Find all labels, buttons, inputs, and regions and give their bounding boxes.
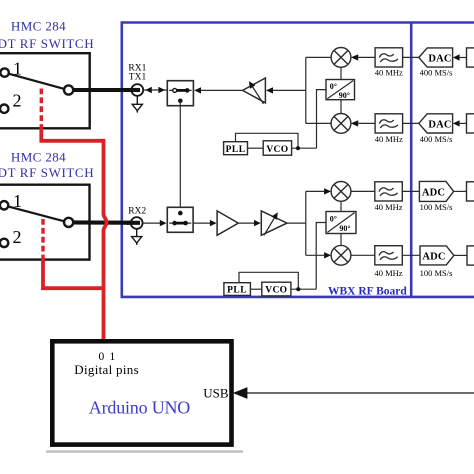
DAC 2 [419,114,453,133]
phase splitter 0/90 (TX) [326,80,355,100]
arrowhead filter1 to mixer M1 [351,54,358,60]
wire: combiner to TX amp [273,89,306,91]
wire: amp A1 to amp A2 [238,222,254,224]
amplifier A1 (RX) [217,211,238,235]
svg-text:ADC: ADC [422,188,445,199]
wire: LO into RX phase splitter [316,223,326,290]
arrowhead into amp A2 [254,220,261,226]
phase splitter 0/90 (RX) [326,212,356,234]
host interface box (row4, clipped) [467,246,474,265]
shadow under Arduino board [46,450,243,452]
wire: TX amp to TR switch [199,89,244,91]
wire: RX phase splitter to mixer M4 [340,234,342,246]
node: VCO output junction (RX) [296,287,300,291]
arrowhead into mixer M3 [324,188,331,194]
Arduino UNO board [52,341,231,444]
VCO U6 (RX) [262,282,291,296]
svg-text:1: 1 [13,59,22,79]
svg-text:40 MHz: 40 MHz [374,268,402,278]
wire: mixer M3 to filter F3 [351,190,375,192]
svg-text:0°: 0° [330,215,337,224]
arrowhead into DAC1 [453,54,460,60]
svg-text:40 MHz: 40 MHz [375,68,403,78]
svg-text:Arduino UNO: Arduino UNO [89,398,190,418]
mixer M4 (RX Q) [331,245,351,265]
svg-text:1: 1 [13,191,22,211]
svg-text:WBX RF Board: WBX RF Board [328,286,407,298]
wire: PLL to VCO (TX) [248,147,264,149]
ground (RX2) [132,229,142,245]
filter F4 (40 MHz LPF) [375,246,403,265]
svg-text:VCO: VCO [265,286,287,296]
TX amplifier (variable gain, points left) [243,78,266,104]
wire: ADC2 to host [454,254,467,256]
host interface box (row1, clipped) [467,48,474,67]
svg-text:DAC: DAC [428,120,451,131]
arrowhead into TX amp from combiner [266,87,273,93]
arrowhead into USB port [233,387,248,399]
ADC 2 [420,246,454,265]
amplifier A2 (RX, variable gain) [261,211,287,235]
arrowhead into amp A1 [210,220,217,226]
node: VCO output junction (TX) [296,146,300,150]
arrowhead toward TR switch (right) [158,87,165,94]
PLL U3 (TX) [224,142,248,155]
arrowhead into mixer M4 [324,252,331,258]
svg-text:SPDT RF SWITCH: SPDT RF SWITCH [0,36,94,51]
ground (RX1/TX1) [132,96,142,113]
wire: PLL to VCO (RX) [250,288,261,290]
arrowhead into RX switch [160,220,167,226]
mixer M2 (TX Q) [331,114,351,134]
switch U1 box (HMC 284 #1) [0,53,90,128]
port RX2 connector [126,217,143,229]
switch U1 arm and contacts [0,68,73,113]
arrowhead into TR switch [194,87,201,93]
wire: F1 to DAC1 [403,56,419,58]
arrowhead filter2 to mixer M2 [351,120,358,126]
svg-text:ADC: ADC [422,252,445,263]
arrowhead toward port (left) [145,87,152,94]
wire: VCO feedback to PLL (RX) [239,272,298,289]
wire: VCO out to LO (RX) [291,288,316,290]
mixer M3 (RX I) [331,182,351,202]
svg-text:400 MS/s: 400 MS/s [420,134,453,144]
wire: mixer M1 to phase splitter [340,67,342,79]
svg-text:90°: 90° [339,224,350,233]
wire: mixer M4 to filter F4 [351,254,375,256]
wire: VCO feedback to PLL (TX) [236,133,299,148]
wire: LO into TX phase splitter [317,90,327,149]
svg-text:VCO: VCO [266,145,288,155]
host interface box (row3, clipped) [467,182,474,201]
wire: ADC1 to host [454,190,467,192]
svg-text:Digital pins: Digital pins [74,362,139,377]
ADC 1 [419,181,453,201]
wire: VCO out to LO (TX) [292,147,317,149]
control wire (red) from U2 pin, dashed inside box [41,219,44,260]
wire: F3 to ADC1 [402,190,419,192]
control wire (red) U1 to Arduino, with hop over RX2 wire [41,127,106,342]
filter F2 (40 MHz LPF) [375,114,403,133]
DAC 1 [419,48,453,67]
control wire (red) U2 to Arduino join [43,258,104,288]
PLL U5 (RX) [224,283,251,296]
wire: TR switch to RX2 switch (vertical link) [179,101,181,213]
wire: RX2 port to RX switch [143,222,161,224]
TR switch box (TX/RX select) [167,81,193,106]
svg-text:SPDT RF SWITCH: SPDT RF SWITCH [0,165,94,180]
VCO U4 (TX) [263,141,291,155]
svg-text:90°: 90° [339,91,350,100]
svg-text:PLL: PLL [227,286,247,296]
svg-text:2: 2 [13,227,22,247]
svg-text:2: 2 [13,91,22,111]
control wire (red) from U1 pin, dashed inside box [40,89,43,129]
filter F1 (40 MHz LPF) [375,48,403,67]
switch U2 box (HMC 284 #2) [0,185,90,260]
TX combiner node [306,57,331,123]
port RX1/TX1 connector [126,84,143,96]
svg-text:TX1: TX1 [129,73,147,83]
svg-text:40 MHz: 40 MHz [375,134,403,144]
svg-text:PLL: PLL [226,145,246,155]
filter F3 (40 MHz LPF) [375,182,403,201]
arrowhead into DAC2 [453,120,460,126]
wire: phase splitter to mixer M2 [340,100,342,114]
svg-text:HMC 284: HMC 284 [11,19,66,34]
wire: U2 common to RX2 port [69,220,140,225]
switch U2 arm and contacts [0,201,73,247]
svg-text:40 MHz: 40 MHz [374,202,402,212]
mixer M1 (TX I) [331,48,351,68]
wire: RX switch to amp A1 [193,222,211,224]
wire: F4 to ADC2 [402,254,420,256]
svg-text:400 MS/s: 400 MS/s [420,68,453,78]
wire: mixer M3 to RX phase splitter [340,201,342,211]
wire: U1 common to RX1/TX1 port [69,88,140,92]
svg-text:RX2: RX2 [128,207,146,217]
svg-text:USB: USB [203,386,229,401]
wire: F2 to DAC2 [403,122,419,124]
svg-text:0°: 0° [330,82,337,91]
svg-text:HMC 284: HMC 284 [11,149,66,164]
host interface box (row2, clipped) [467,114,474,133]
wire: amp A2 to RX splitter [287,222,306,224]
svg-text:DAC: DAC [428,54,451,65]
wire: USB cable from host [247,392,474,394]
wire: bidirectional link port RX1/TX1 to TR switch [143,89,167,91]
RX splitter node [306,191,324,255]
svg-text:100 MS/s: 100 MS/s [420,268,453,278]
svg-text:100 MS/s: 100 MS/s [420,202,453,212]
RX switch box [167,207,193,232]
WBX RF Board enclosure (blue) [122,23,474,297]
